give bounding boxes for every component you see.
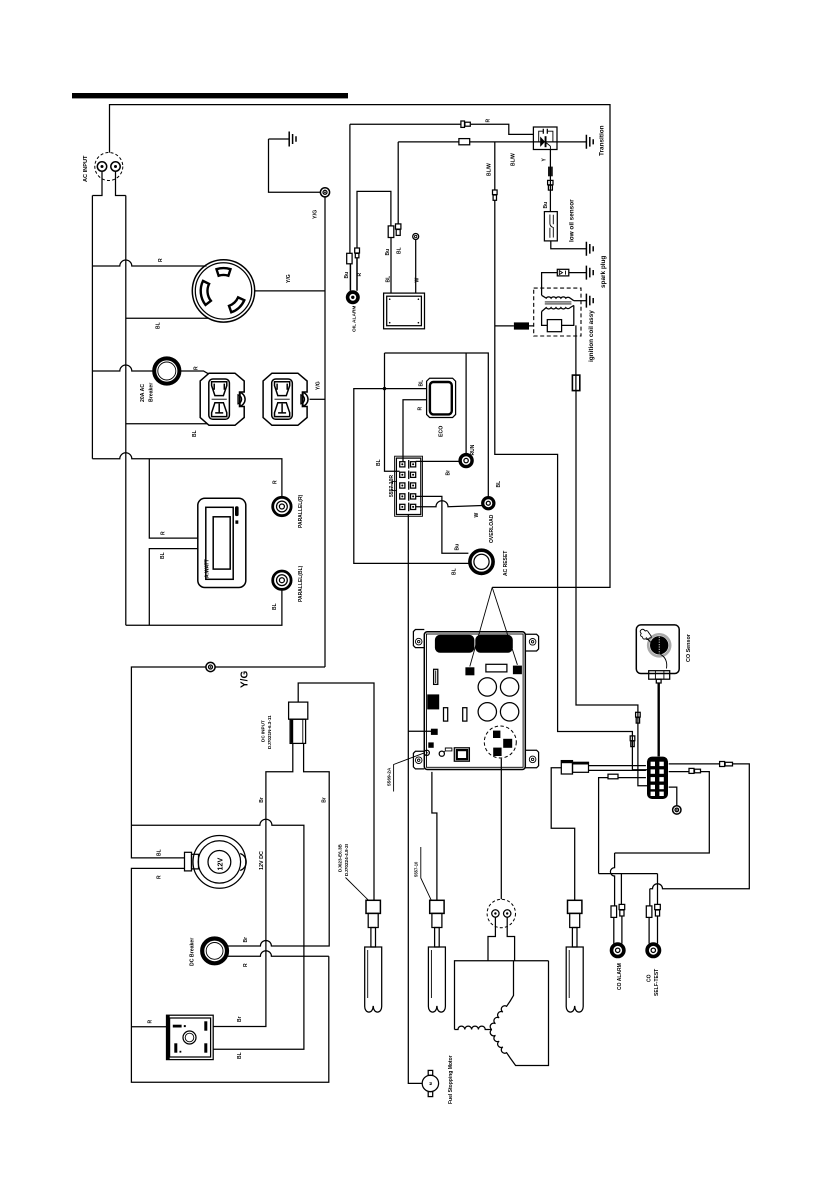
connector in-line bullet on R	[461, 121, 470, 127]
svg-text:BL/W: BL/W	[511, 153, 517, 166]
svg-text:PARALLEL(R): PARALLEL(R)	[298, 494, 304, 528]
wire BL ECO net	[354, 353, 469, 563]
svg-text:DJ70224-4.8-2I: DJ70224-4.8-2I	[344, 844, 349, 876]
wire BL rectifier link	[131, 819, 304, 1049]
wire row3 harness	[599, 778, 646, 874]
wire BL to display	[390, 238, 392, 294]
terminal PARALLEL(BL)	[273, 571, 291, 589]
svg-text:5557-10: 5557-10	[414, 861, 419, 877]
wire oil alarm Bu lead	[349, 124, 351, 253]
wire R oil alarm to mid connector	[357, 191, 391, 248]
svg-text:R: R	[158, 258, 164, 262]
wire row1 right to CO SELF-TEST left	[650, 764, 750, 889]
breaker DC	[202, 939, 227, 964]
connector in-line bullets row1 right	[720, 762, 733, 767]
connector P2 harness plug	[561, 761, 588, 774]
wire BL bus to outlet1	[126, 423, 207, 425]
CO sensor module	[636, 625, 679, 683]
wire R engine sense L2	[350, 124, 534, 134]
svg-text:DC Breaker: DC Breaker	[190, 938, 196, 966]
wire BL watt meter	[149, 549, 198, 626]
wire plug B to PCB	[432, 772, 437, 900]
wire Br DC input left pin	[213, 743, 293, 1026]
connector in-line rect row3	[608, 774, 618, 779]
connector in-line rect on Y	[548, 167, 553, 177]
connector in-line bullets on Y	[548, 180, 553, 190]
svg-text:OVERLOAD: OVERLOAD	[489, 514, 495, 543]
wire R bus to AC breaker	[92, 365, 153, 371]
svg-text:BL: BL	[386, 276, 392, 283]
svg-text:BL: BL	[192, 430, 198, 437]
inductor primary winding	[542, 305, 574, 311]
svg-text:5557-10R: 5557-10R	[389, 475, 395, 497]
winding generator stator	[455, 961, 549, 1066]
connector in-line rect on BL/W	[459, 139, 470, 145]
svg-text:AC RESET: AC RESET	[503, 551, 509, 576]
wire CO SELF-TEST left lead	[649, 889, 651, 906]
svg-text:BL: BL	[157, 849, 163, 856]
wire oil alarm leads	[350, 258, 357, 291]
transistor Transition module	[533, 127, 557, 150]
svg-text:BL: BL	[272, 603, 278, 610]
ignition coil assy dashed box	[534, 288, 581, 336]
svg-text:OIL ALARM: OIL ALARM	[352, 306, 358, 332]
LED RUN	[460, 455, 472, 467]
node Y/G ring terminal top	[320, 188, 329, 197]
svg-text:R: R	[357, 273, 363, 277]
button AC RESET	[470, 550, 493, 573]
connector in-line rect on ignition lead	[572, 375, 579, 391]
receptacle duplex outlet 2	[263, 373, 308, 425]
connector in-line bullets row4	[636, 712, 641, 723]
wire PCB feed split left	[470, 587, 492, 666]
connector plug B 5557-10	[428, 900, 445, 1012]
svg-text:Transition: Transition	[599, 125, 606, 156]
connector in-line bullets row2 right	[689, 768, 701, 773]
wire R ECO to 5557 pin1	[403, 400, 427, 462]
svg-text:Br: Br	[243, 937, 249, 943]
wire kill to BL/W	[495, 325, 534, 327]
display hour meter	[384, 293, 425, 329]
svg-text:CO ALARM: CO ALARM	[617, 963, 623, 990]
connector black inline kill	[514, 322, 529, 329]
ground transition	[586, 135, 593, 149]
svg-text:PARALLEL(BL): PARALLEL(BL)	[298, 565, 304, 602]
svg-text:BL: BL	[156, 322, 162, 329]
wire Br DC input right pin to DC breaker	[228, 743, 329, 946]
connector plug C	[566, 900, 583, 1012]
wire engine plug to PCB round connector	[500, 759, 502, 900]
svg-text:BL: BL	[496, 481, 502, 488]
svg-text:BL: BL	[160, 552, 166, 559]
svg-text:SELF-TEST: SELF-TEST	[654, 969, 660, 996]
wire DC input to plug A	[298, 683, 374, 900]
core ignition coil	[545, 302, 572, 304]
wire BL/W L3 to transistor and ground	[398, 141, 586, 143]
wire sensor to ground	[551, 241, 586, 249]
ground ignition coil	[586, 294, 593, 308]
wire bus R (left)	[91, 196, 93, 459]
svg-text:BL: BL	[452, 568, 458, 575]
LED CO ALARM	[612, 944, 624, 956]
wire spark gap to ground	[569, 272, 586, 274]
svg-text:CO Sensor: CO Sensor	[686, 633, 692, 662]
wire R DC breaker to rectifier loop	[228, 951, 329, 956]
svg-text:DJ7021N-6.3-11: DJ7021N-6.3-11	[267, 715, 272, 749]
wire ignition lead to 12pin row4	[576, 391, 649, 786]
LED CO SELF-TEST	[647, 944, 659, 956]
wire BL/W vertical run	[495, 142, 649, 770]
svg-text:A.WATT: A.WATT	[205, 559, 211, 578]
svg-text:BL: BL	[376, 459, 382, 466]
terminal screw W	[413, 234, 419, 240]
socket 12V DC	[185, 836, 247, 889]
wire callout 5569-2A	[394, 753, 425, 792]
connector 5557-10R	[392, 456, 423, 516]
svg-text:BL: BL	[419, 380, 425, 387]
svg-text:12V DC: 12V DC	[259, 851, 265, 870]
wire Y/G twist-lock to bus	[255, 290, 325, 292]
svg-text:R: R	[161, 531, 167, 535]
wire Br pin R1 to RUN	[416, 460, 460, 462]
wire spark to ignition coil	[542, 273, 558, 296]
wire W to display	[415, 240, 417, 294]
svg-text:Br: Br	[259, 797, 265, 803]
svg-text:RUN: RUN	[470, 444, 476, 455]
wire CO ALARM right lead	[599, 874, 658, 905]
wire breaker to outlet1	[181, 371, 209, 374]
sensor low oil	[544, 212, 557, 241]
spark gap	[557, 269, 569, 276]
wire Y transistor to sensor	[549, 150, 551, 212]
wire R to twist-lock	[92, 260, 206, 266]
wire ground lead ring	[669, 787, 677, 806]
svg-text:Y/G: Y/G	[316, 381, 322, 390]
wire CO ALARM leads lower	[614, 916, 622, 944]
svg-text:12V: 12V	[215, 858, 224, 871]
wire earth to Y/G terminal	[269, 139, 321, 192]
svg-text:20A AC: 20A AC	[140, 384, 146, 402]
wire W pin R5 to OVERLOAD	[416, 501, 483, 507]
wire PCB feed split right	[492, 587, 517, 664]
wire plug C riser	[551, 768, 575, 901]
svg-text:ignition coil assy: ignition coil assy	[588, 310, 595, 362]
meter A.WATT display	[198, 498, 246, 587]
node Y/G ring terminal lower	[206, 662, 215, 671]
svg-text:Y/G: Y/G	[240, 671, 251, 688]
svg-text:R: R	[272, 480, 278, 484]
connector mid pair	[388, 224, 401, 238]
wire CO ALARM left lead	[610, 853, 614, 906]
wire winding pedestal	[488, 918, 515, 961]
wire P2 to 12pin rows 1-2	[589, 766, 646, 771]
wire Y/G bus to ground terminal	[131, 667, 325, 858]
wire row2 right to CO ALARM left	[615, 772, 710, 853]
node ring terminal ground	[673, 806, 681, 814]
motor fuel stopping	[422, 1070, 438, 1096]
svg-text:5569-2A: 5569-2A	[387, 767, 393, 786]
igniter module	[547, 320, 561, 332]
inverter PCB unit	[413, 630, 538, 770]
svg-text:CO: CO	[647, 974, 653, 982]
wire R 12V socket down to rectifier loop	[131, 868, 328, 1082]
wire AC input pins to buses	[92, 171, 125, 195]
svg-text:R: R	[486, 119, 492, 123]
svg-text:Bu: Bu	[344, 272, 350, 279]
connector oil alarm pair	[347, 248, 360, 264]
svg-text:W: W	[474, 513, 480, 518]
svg-text:W: W	[415, 278, 421, 283]
wire CO sensor to 12pin	[658, 683, 660, 756]
LED OVERLOAD	[483, 498, 494, 509]
svg-text:Y/G: Y/G	[286, 274, 292, 283]
oil alarm switch	[346, 290, 360, 304]
ground low oil sensor	[586, 242, 593, 256]
wire Y/G outlet2 to bus	[310, 398, 325, 400]
connector pair CO ALARM	[611, 904, 625, 917]
svg-text:R: R	[418, 407, 424, 411]
svg-text:Br: Br	[237, 1016, 243, 1022]
node junction ECO BL	[383, 387, 386, 390]
svg-text:R: R	[243, 963, 249, 967]
svg-text:R: R	[148, 1020, 154, 1024]
svg-text:Br: Br	[446, 470, 452, 476]
ground spark plug	[586, 266, 593, 280]
wire CO SELF-TEST leads lower	[649, 916, 657, 944]
connector pair CO SELF-TEST	[646, 904, 660, 917]
svg-text:AC INPUT: AC INPUT	[83, 155, 89, 182]
wire BL/W branch to mid connector	[397, 142, 399, 224]
rectifier bridge	[167, 1015, 214, 1059]
svg-text:low oil sensor: low oil sensor	[569, 199, 576, 242]
wire bus Y/G	[324, 197, 326, 667]
svg-text:spark plug: spark plug	[600, 256, 607, 288]
svg-text:R: R	[194, 366, 200, 370]
svg-text:Bu: Bu	[543, 202, 549, 209]
svg-text:Bu: Bu	[455, 544, 461, 551]
svg-text:BL: BL	[397, 247, 403, 254]
wire bus BL (right)	[125, 196, 127, 626]
wire Bu pin R4 to AC RESET	[416, 496, 469, 553]
svg-text:R: R	[157, 875, 163, 879]
inductor secondary winding	[542, 295, 574, 300]
svg-text:Breaker: Breaker	[149, 383, 155, 402]
wire R branch to watt meter	[149, 459, 198, 538]
svg-text:ECO: ECO	[439, 426, 445, 437]
wire top rail from AC input to inverter PCB	[110, 105, 611, 588]
svg-text:Br: Br	[321, 797, 327, 803]
receptacle twist-lock 30A	[192, 260, 254, 322]
svg-text:DJ623-E6.3B: DJ623-E6.3B	[338, 843, 343, 872]
wire callout to plug A	[346, 878, 369, 901]
svg-text:Bu: Bu	[385, 249, 391, 256]
receptacle duplex outlet 1	[200, 373, 245, 425]
connector engine 2-pin plug	[487, 899, 515, 927]
wire indicator common top	[385, 353, 489, 497]
svg-text:Fuel Stopping Motor: Fuel Stopping Motor	[448, 1055, 454, 1104]
wire R rectifier stub	[131, 1026, 166, 1028]
connector AC INPUT plug	[95, 153, 123, 181]
connector 12pin main	[647, 757, 668, 799]
wire coil secondary to ground	[574, 300, 586, 302]
wire BL to twist-lock	[126, 317, 209, 319]
wire igniter links	[542, 305, 576, 390]
switch ECO	[427, 378, 456, 417]
connector DC INPUT DJ7021N	[289, 702, 308, 743]
svg-text:Y/G: Y/G	[313, 210, 319, 219]
title underline bar	[72, 93, 348, 98]
wire R bus to parallel R	[92, 453, 282, 497]
terminal PARALLEL(R)	[273, 497, 291, 515]
ground frame earth top	[269, 132, 297, 147]
svg-text:M: M	[429, 1082, 433, 1085]
breaker 20A AC	[154, 358, 179, 383]
wire BL bus to parallel BL	[126, 590, 282, 626]
svg-text:DC INPUT: DC INPUT	[261, 720, 266, 742]
connector plug A DJ623	[365, 900, 382, 1012]
connector in-line bullets on BL/W	[493, 190, 498, 200]
wire CO SELF-TEST right lead	[657, 874, 659, 905]
connector in-line pair row2	[630, 736, 635, 747]
wire 5557 bottom pin to PCB and fuel motor	[408, 515, 431, 1084]
svg-text:BL/W: BL/W	[487, 163, 493, 176]
svg-text:BL: BL	[237, 1052, 243, 1059]
